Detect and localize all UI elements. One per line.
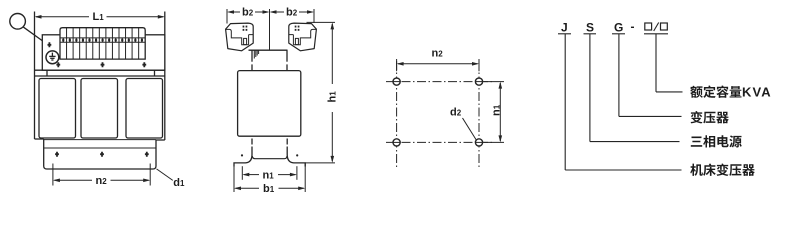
svg-text:d2: d2 [450, 107, 462, 119]
svg-text:n1: n1 [491, 104, 503, 116]
svg-text:n1: n1 [263, 170, 275, 182]
svg-text:S: S [586, 21, 594, 35]
svg-text:n2: n2 [432, 48, 444, 60]
svg-text:b2: b2 [242, 7, 254, 19]
svg-text:L1: L1 [93, 11, 105, 23]
svg-text:b2: b2 [286, 7, 298, 19]
svg-text:n2: n2 [96, 175, 108, 187]
svg-text:b1: b1 [263, 183, 275, 195]
svg-text:d1: d1 [173, 177, 185, 189]
svg-text:h1: h1 [327, 91, 339, 103]
svg-text:KVA: KVA [742, 85, 772, 100]
svg-text:-: - [631, 20, 635, 34]
svg-text:G: G [614, 21, 623, 35]
svg-text:J: J [561, 21, 568, 35]
